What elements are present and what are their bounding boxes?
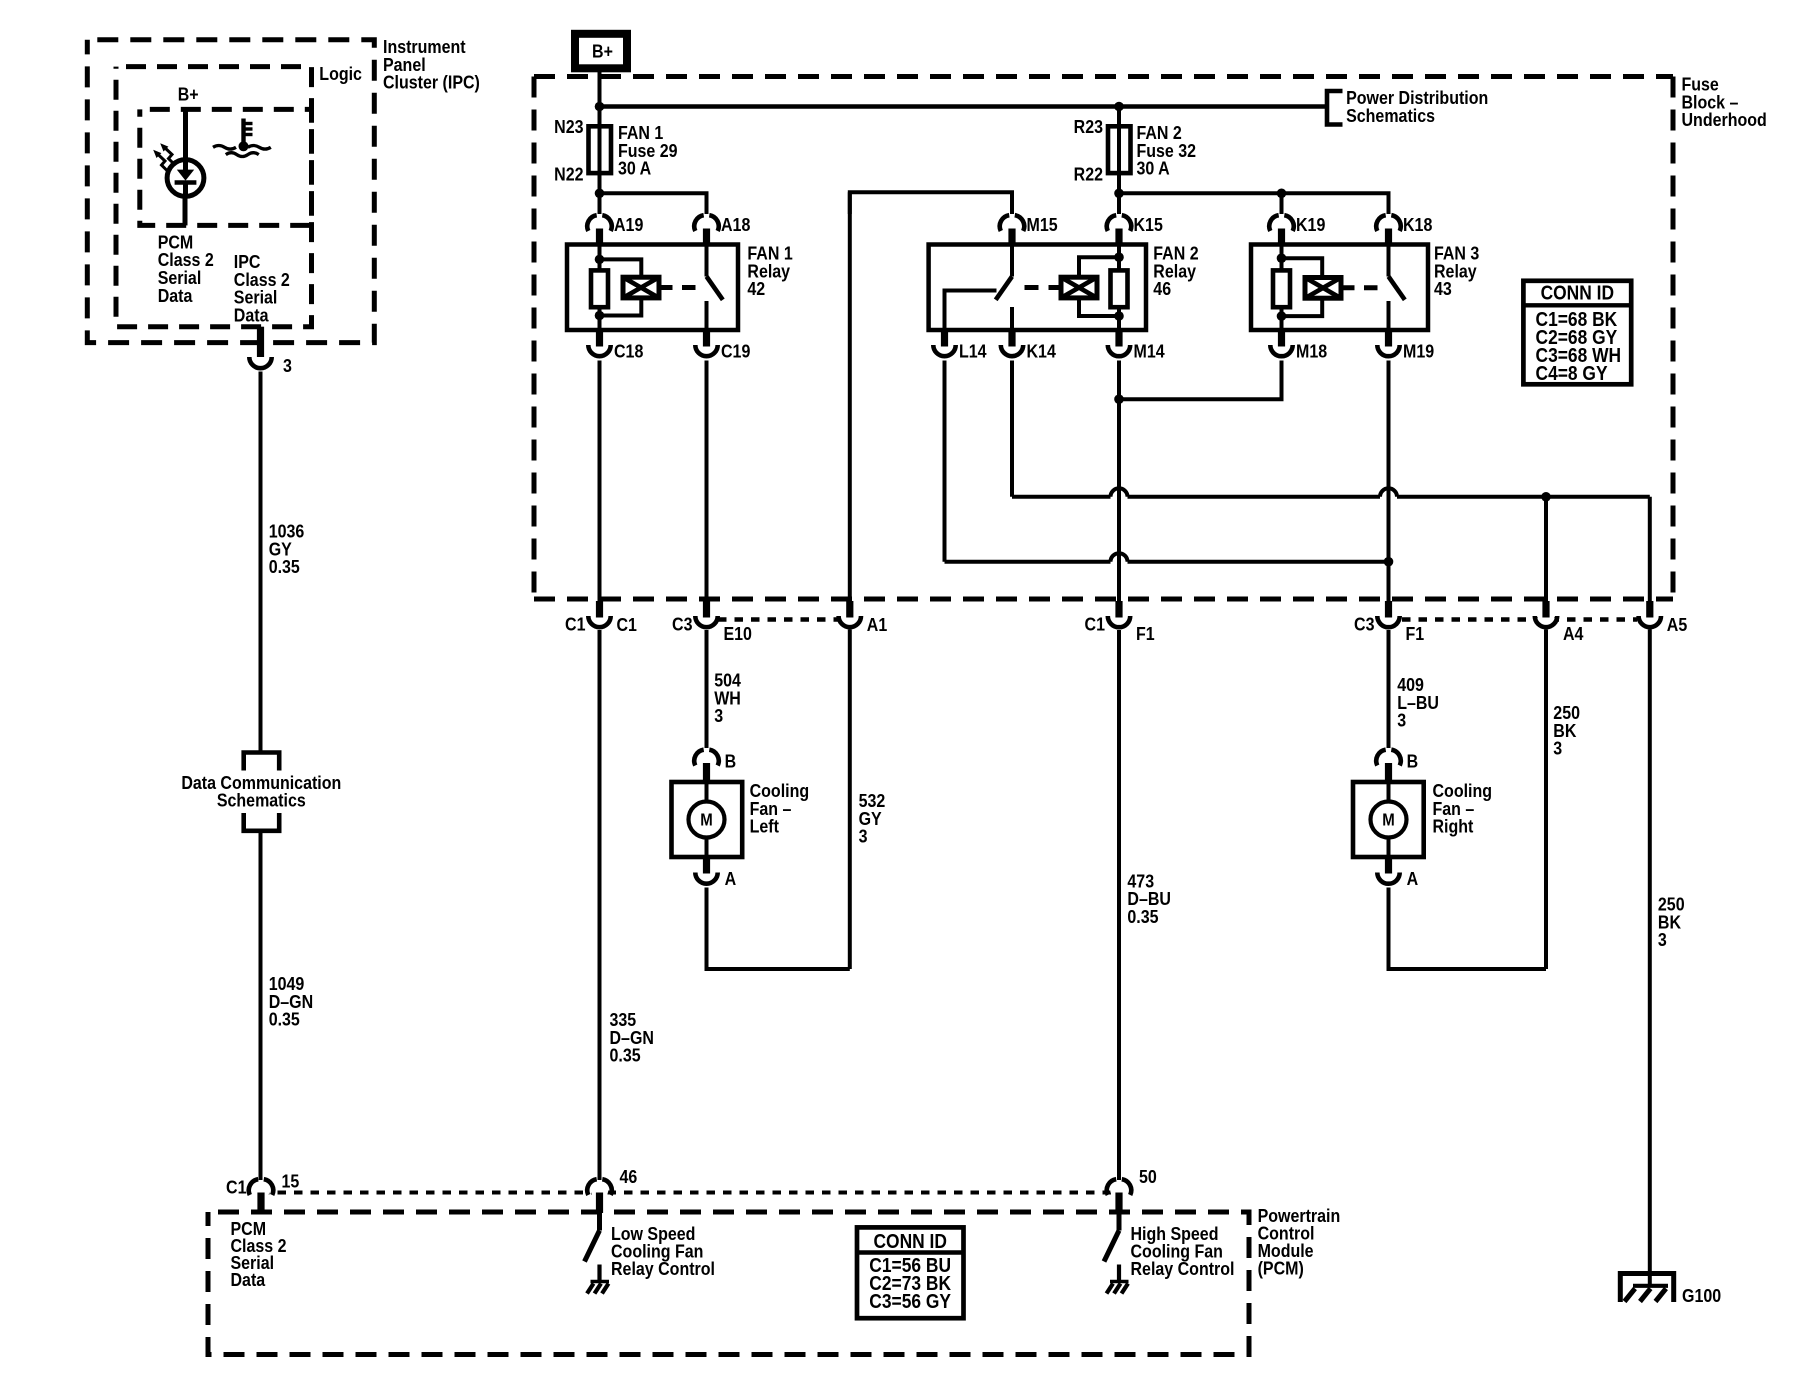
- FAN1 relay junction top: [595, 255, 605, 265]
- svg-text:K19: K19: [1296, 214, 1325, 235]
- connector terminal M18: [1270, 330, 1292, 356]
- junction A4 tap: [1541, 492, 1551, 502]
- wire A4 tap down: [1544, 497, 1548, 601]
- junction below fuse 29: [595, 189, 605, 199]
- connector C3/F1 (fuse block to right fan): [1377, 601, 1399, 629]
- power terminal B+: [575, 34, 627, 69]
- svg-text:M15: M15: [1027, 214, 1058, 235]
- CONN ID table (PCM): [857, 1227, 964, 1318]
- FAN3 relay coil stub and actuation dashed link: [1341, 285, 1386, 290]
- svg-text:A19: A19: [614, 214, 643, 235]
- CONN ID table (fuse block): [1523, 281, 1631, 385]
- fuse FAN 1 Fuse 29 30A: [589, 126, 612, 173]
- fuse FAN 2 Fuse 32 30A: [1108, 126, 1131, 173]
- svg-text:F1: F1: [1136, 623, 1155, 644]
- svg-text:3: 3: [283, 355, 292, 376]
- FAN2 relay actuation dashed link and coil stub: [1025, 285, 1062, 290]
- wire through fuse 29: [598, 127, 602, 214]
- fuse block right dashed border: [1671, 77, 1676, 600]
- FAN2 relay coil parallel loop: [1079, 257, 1119, 316]
- svg-text:50: 50: [1139, 1166, 1157, 1187]
- svg-text:C4=8 GY: C4=8 GY: [1536, 362, 1609, 384]
- svg-text:C19: C19: [721, 340, 750, 361]
- svg-text:A: A: [725, 868, 737, 889]
- svg-text:3: 3: [1553, 738, 1562, 759]
- svg-text:C1: C1: [565, 613, 586, 634]
- relay FAN 3 Relay 43 box: [1251, 245, 1428, 331]
- connector C3/E10 (fuse block to left fan): [695, 601, 717, 629]
- motor Cooling Fan Left: [672, 782, 743, 857]
- connector 46 at PCM: [587, 1179, 612, 1213]
- svg-text:M: M: [700, 811, 712, 830]
- junction at K19 branch: [1277, 189, 1287, 199]
- svg-text:C3: C3: [672, 613, 692, 634]
- svg-text:B: B: [725, 750, 737, 771]
- B+ bus wire: [600, 104, 1328, 109]
- svg-text:C1: C1: [226, 1176, 247, 1197]
- svg-text:A4: A4: [1563, 623, 1584, 644]
- svg-text:3: 3: [859, 826, 868, 847]
- svg-text:3: 3: [714, 705, 723, 726]
- FAN2 relay coil (box with X): [1061, 277, 1097, 298]
- wire branch down to K19: [1280, 193, 1284, 214]
- svg-text:C3=56 GY: C3=56 GY: [869, 1290, 951, 1312]
- junction at fan2 fuse feed: [1114, 102, 1124, 112]
- dotted connector line F1 to A4 to A5: [1402, 617, 1637, 622]
- FAN3 relay junction top: [1277, 253, 1287, 263]
- svg-text:A18: A18: [721, 214, 751, 235]
- svg-text:Data: Data: [158, 285, 193, 306]
- svg-text:M: M: [1382, 811, 1394, 830]
- svg-text:K15: K15: [1134, 214, 1164, 235]
- module box Powertrain Control Module (PCM), dashed: [208, 1212, 1249, 1355]
- junction at B+ feed: [595, 102, 605, 112]
- dotted connector line PCM C1 to 50: [261, 1191, 1119, 1195]
- connector terminal A19: [587, 215, 612, 244]
- svg-text:15: 15: [282, 1170, 300, 1191]
- wire 1049 D-GN to PCM: [259, 831, 263, 1180]
- svg-text:C18: C18: [614, 340, 644, 361]
- connector terminal K14: [1001, 330, 1023, 356]
- wire through fuse 32: [1117, 107, 1121, 215]
- svg-text:M14: M14: [1134, 340, 1165, 361]
- FAN3 relay resistor: [1273, 270, 1290, 307]
- svg-text:CONN ID: CONN ID: [1541, 281, 1614, 303]
- connector terminal A18: [694, 215, 719, 244]
- connector terminal M15: [1000, 215, 1025, 244]
- svg-text:3: 3: [1658, 929, 1667, 950]
- connector terminal A (right fan): [1377, 857, 1399, 884]
- hot coolant thermometer icon: [213, 119, 271, 157]
- FAN3 relay coil column wire: [1280, 245, 1284, 331]
- connector A1: [839, 601, 861, 629]
- connector 50 at PCM: [1107, 1179, 1132, 1213]
- svg-text:M18: M18: [1296, 340, 1327, 361]
- connector terminal C19: [695, 330, 717, 356]
- FAN1 relay junction bottom: [595, 311, 605, 321]
- FAN2 relay junction top: [1114, 252, 1124, 262]
- fuse block left dashed border: [532, 77, 537, 600]
- FAN1 relay coil column wire: [598, 245, 602, 331]
- svg-text:46: 46: [620, 1166, 638, 1187]
- inner dashed box around Hot Coolant Indicator: [140, 109, 312, 225]
- wire K14 to A4/A5 feed: [1012, 361, 1650, 604]
- relay FAN 1 Relay 42 box: [567, 245, 738, 331]
- connector terminal M14: [1108, 330, 1130, 356]
- svg-text:Schematics: Schematics: [1346, 105, 1435, 126]
- motor Cooling Fan Right: [1353, 782, 1424, 857]
- connector terminal C18: [588, 330, 610, 356]
- wire fuse29 branch to A18: [600, 193, 707, 214]
- wire C19 down to E10: [705, 361, 709, 604]
- svg-text:Relay Control: Relay Control: [611, 1258, 715, 1279]
- connector terminal A (left fan): [695, 857, 717, 884]
- module box Instrument Panel Cluster (IPC), dashed: [87, 40, 374, 343]
- svg-text:30 A: 30 A: [1137, 158, 1170, 179]
- FAN3 relay junction bottom: [1277, 311, 1287, 321]
- svg-text:E10: E10: [724, 623, 752, 644]
- wire left fan A to A1 (532 GY): [707, 888, 850, 970]
- connector pin 3 at IPC exit: [257, 327, 264, 357]
- svg-text:C3: C3: [1354, 613, 1374, 634]
- connector C1 (fuse block to low speed relay control): [588, 601, 610, 629]
- FAN3 relay switch: [1389, 245, 1405, 331]
- wire B+ down to fuse: [598, 70, 602, 127]
- svg-text:B+: B+: [592, 40, 613, 61]
- wire fuse32 branch to K18: [1119, 193, 1389, 214]
- connector terminal K15: [1107, 215, 1132, 244]
- wire L14 to M19 junction: [945, 361, 1389, 562]
- LED lamp Hot Coolant Indicator: [167, 160, 204, 197]
- wire B+ to LED: [183, 110, 188, 161]
- FAN1 relay coil parallel loop: [600, 259, 642, 315]
- wire C18 down to C1: [598, 361, 602, 604]
- svg-text:A1: A1: [867, 614, 888, 635]
- svg-text:K14: K14: [1027, 340, 1057, 361]
- fuse block bottom dashed border: [534, 597, 1673, 602]
- svg-text:(PCM): (PCM): [1258, 1257, 1304, 1278]
- wire M19 down to C3/F1: [1387, 361, 1391, 604]
- svg-text:A5: A5: [1667, 614, 1688, 635]
- svg-text:N23: N23: [554, 116, 583, 137]
- wire 473 D-BU F1 to PCM 50: [1117, 630, 1121, 1180]
- svg-text:Left: Left: [750, 816, 780, 837]
- svg-text:Right: Right: [1433, 816, 1474, 837]
- connector C1/F1 (fuse block to high speed relay control): [1108, 601, 1130, 629]
- svg-text:B+: B+: [178, 83, 199, 104]
- FAN3 relay coil parallel loop: [1282, 258, 1323, 316]
- FAN2 relay switch output to L14: [945, 291, 997, 331]
- FAN1 relay resistor: [591, 270, 608, 307]
- LED light emission arrows: [153, 143, 175, 172]
- relay FAN 2 Relay 46 box: [929, 245, 1146, 331]
- FAN3 relay coil (box with X): [1305, 278, 1341, 299]
- svg-text:0.35: 0.35: [269, 1009, 301, 1030]
- wire A1 to M15: [850, 192, 1012, 214]
- svg-text:Underhood: Underhood: [1682, 109, 1767, 130]
- junction M14 branch: [1114, 394, 1124, 404]
- connector terminal L14: [933, 330, 955, 356]
- wire right fan A to A4 (250 BK): [1389, 888, 1547, 970]
- connector C1/15 at PCM: [249, 1179, 274, 1213]
- svg-text:L14: L14: [959, 340, 987, 361]
- svg-text:0.35: 0.35: [610, 1045, 642, 1066]
- fuse block top dashed border: [534, 74, 1673, 79]
- off-page reference Power Distribution Schematics: [1327, 91, 1343, 125]
- svg-text:M19: M19: [1403, 340, 1434, 361]
- svg-text:30 A: 30 A: [618, 158, 651, 179]
- wire A4 down: [1544, 630, 1548, 970]
- svg-text:B: B: [1407, 750, 1419, 771]
- dotted connector line E10 to A1: [718, 617, 838, 622]
- svg-text:3: 3: [1397, 710, 1406, 731]
- wire 1036 GY from IPC pin 3: [259, 372, 263, 753]
- wire 335 D-GN C1 to PCM 46: [598, 630, 602, 1180]
- wire M14 to M18: [1119, 361, 1282, 400]
- svg-text:Data: Data: [231, 1269, 266, 1290]
- ground G100: [1620, 1274, 1673, 1303]
- svg-text:CONN ID: CONN ID: [873, 1230, 946, 1252]
- FAN1 relay switch: [707, 245, 723, 331]
- FAN1 relay coil (box with X): [623, 277, 659, 298]
- svg-text:R22: R22: [1074, 163, 1103, 184]
- svg-text:R23: R23: [1074, 116, 1103, 137]
- svg-text:Logic: Logic: [319, 63, 362, 84]
- junction below fuse 32: [1114, 189, 1124, 199]
- connector terminal K19: [1269, 215, 1294, 244]
- FAN2 relay junction bottom: [1114, 311, 1124, 321]
- wire LED to logic box bottom: [183, 199, 188, 226]
- svg-text:A: A: [1407, 868, 1419, 889]
- connector terminal B (right fan): [1376, 750, 1401, 782]
- junction M19/L14: [1384, 557, 1394, 567]
- connector terminal M19: [1377, 330, 1399, 356]
- wire M14 down to F1: [1117, 361, 1121, 604]
- svg-text:F1: F1: [1406, 623, 1425, 644]
- FAN2 relay switch: [996, 245, 1012, 331]
- svg-text:43: 43: [1434, 278, 1452, 299]
- svg-text:C1: C1: [1085, 613, 1106, 634]
- svg-text:0.35: 0.35: [1127, 906, 1159, 927]
- svg-text:Data: Data: [234, 304, 269, 325]
- svg-text:C1: C1: [617, 614, 638, 635]
- module box Logic, dashed: [116, 67, 312, 327]
- svg-text:42: 42: [747, 278, 765, 299]
- connector A5: [1639, 601, 1661, 629]
- svg-text:Cluster (IPC): Cluster (IPC): [383, 72, 480, 93]
- switch High Speed Cooling Fan Relay Control: [1104, 1213, 1129, 1294]
- svg-text:Schematics: Schematics: [217, 790, 306, 811]
- svg-text:46: 46: [1153, 278, 1171, 299]
- svg-text:K18: K18: [1403, 214, 1433, 235]
- FAN2 relay coil column wire: [1117, 245, 1121, 331]
- wire A1 column in fuse block: [848, 192, 852, 603]
- FAN1 relay coil stub and actuation dashed link: [659, 285, 704, 290]
- wire 504 WH to left fan B: [705, 630, 709, 748]
- off-page reference Data Communication Schematics: [244, 753, 280, 831]
- FAN2 relay resistor: [1111, 270, 1128, 307]
- wire 409 L-BU to right fan B: [1387, 630, 1391, 748]
- svg-text:Relay Control: Relay Control: [1131, 1258, 1235, 1279]
- connector terminal K18: [1376, 215, 1401, 244]
- connector terminal B (left fan): [694, 750, 719, 782]
- svg-text:G100: G100: [1682, 1285, 1721, 1306]
- svg-text:0.35: 0.35: [269, 556, 301, 577]
- svg-text:N22: N22: [554, 163, 583, 184]
- switch Low Speed Cooling Fan Relay Control: [585, 1213, 610, 1294]
- wire A1 down: [848, 630, 852, 970]
- connector A4: [1535, 601, 1557, 629]
- wire A5 to G100 (250 BK): [1648, 630, 1652, 1285]
